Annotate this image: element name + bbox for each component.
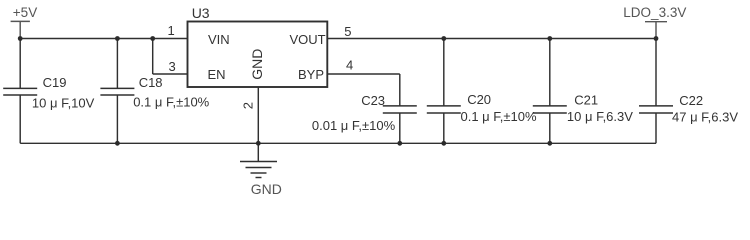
node junction C23 bottom (397, 141, 402, 146)
capacitor C20 (427, 39, 461, 144)
svg-text:BYP: BYP (298, 67, 324, 82)
node junction C21 bottom (547, 141, 552, 146)
svg-text:EN: EN (208, 67, 226, 82)
ground (240, 143, 277, 177)
capacitor C23 (383, 106, 417, 143)
wire EN branch (153, 39, 188, 75)
svg-text:0.1 μ F,±10%: 0.1 μ F,±10% (461, 109, 537, 124)
node junction C21 top (547, 36, 552, 41)
node junction C22 top / LDO_3.3V (654, 36, 659, 41)
capacitor C22 (639, 39, 673, 144)
svg-text:GND: GND (249, 49, 265, 80)
svg-text:GND: GND (251, 181, 282, 197)
svg-text:C22: C22 (679, 93, 703, 108)
svg-text:C20: C20 (467, 92, 491, 107)
wire top-left rail (20, 38, 187, 40)
svg-text:C23: C23 (361, 93, 385, 108)
svg-text:VOUT: VOUT (290, 32, 326, 47)
svg-text:C19: C19 (43, 75, 67, 90)
svg-text:5: 5 (344, 24, 351, 39)
svg-text:47 μ F,6.3V: 47 μ F,6.3V (672, 109, 738, 124)
power +5V (11, 21, 30, 38)
wire bottom rail (20, 142, 656, 144)
svg-text:10 μ F,10V: 10 μ F,10V (32, 95, 95, 110)
node junction C18 top (115, 36, 120, 41)
svg-text:0.1 μ F,±10%: 0.1 μ F,±10% (133, 95, 209, 110)
svg-text:4: 4 (346, 57, 353, 72)
svg-text:C18: C18 (139, 75, 163, 90)
node junction C18 bottom (115, 141, 120, 146)
wire pin 2 GND drop (257, 87, 259, 143)
node junction GND rail (256, 141, 261, 146)
node junction C20 top (441, 36, 446, 41)
capacitor C19 (3, 39, 37, 144)
capacitor C21 (533, 39, 567, 144)
svg-text:10 μ F,6.3V: 10 μ F,6.3V (567, 109, 633, 124)
svg-text:+5V: +5V (13, 5, 37, 20)
svg-text:LDO_3.3V: LDO_3.3V (623, 5, 686, 20)
svg-text:3: 3 (169, 59, 176, 74)
op-amp U1 : regulator IC U3 body (188, 22, 328, 88)
node junction C20 bottom (441, 141, 446, 146)
svg-text:0.01 μ F,±10%: 0.01 μ F,±10% (312, 118, 396, 133)
svg-text:VIN: VIN (208, 32, 230, 47)
capacitor C18 (100, 39, 134, 144)
wire BYP to C23 (327, 74, 400, 106)
wire VOUT rail (327, 38, 656, 40)
svg-text:C21: C21 (574, 93, 598, 108)
power LDO_3.3V (645, 22, 667, 39)
node junction EN branch (150, 36, 155, 41)
svg-text:1: 1 (168, 23, 175, 38)
svg-text:2: 2 (240, 102, 255, 109)
svg-text:U3: U3 (192, 5, 210, 21)
node junction +5V (18, 36, 23, 41)
